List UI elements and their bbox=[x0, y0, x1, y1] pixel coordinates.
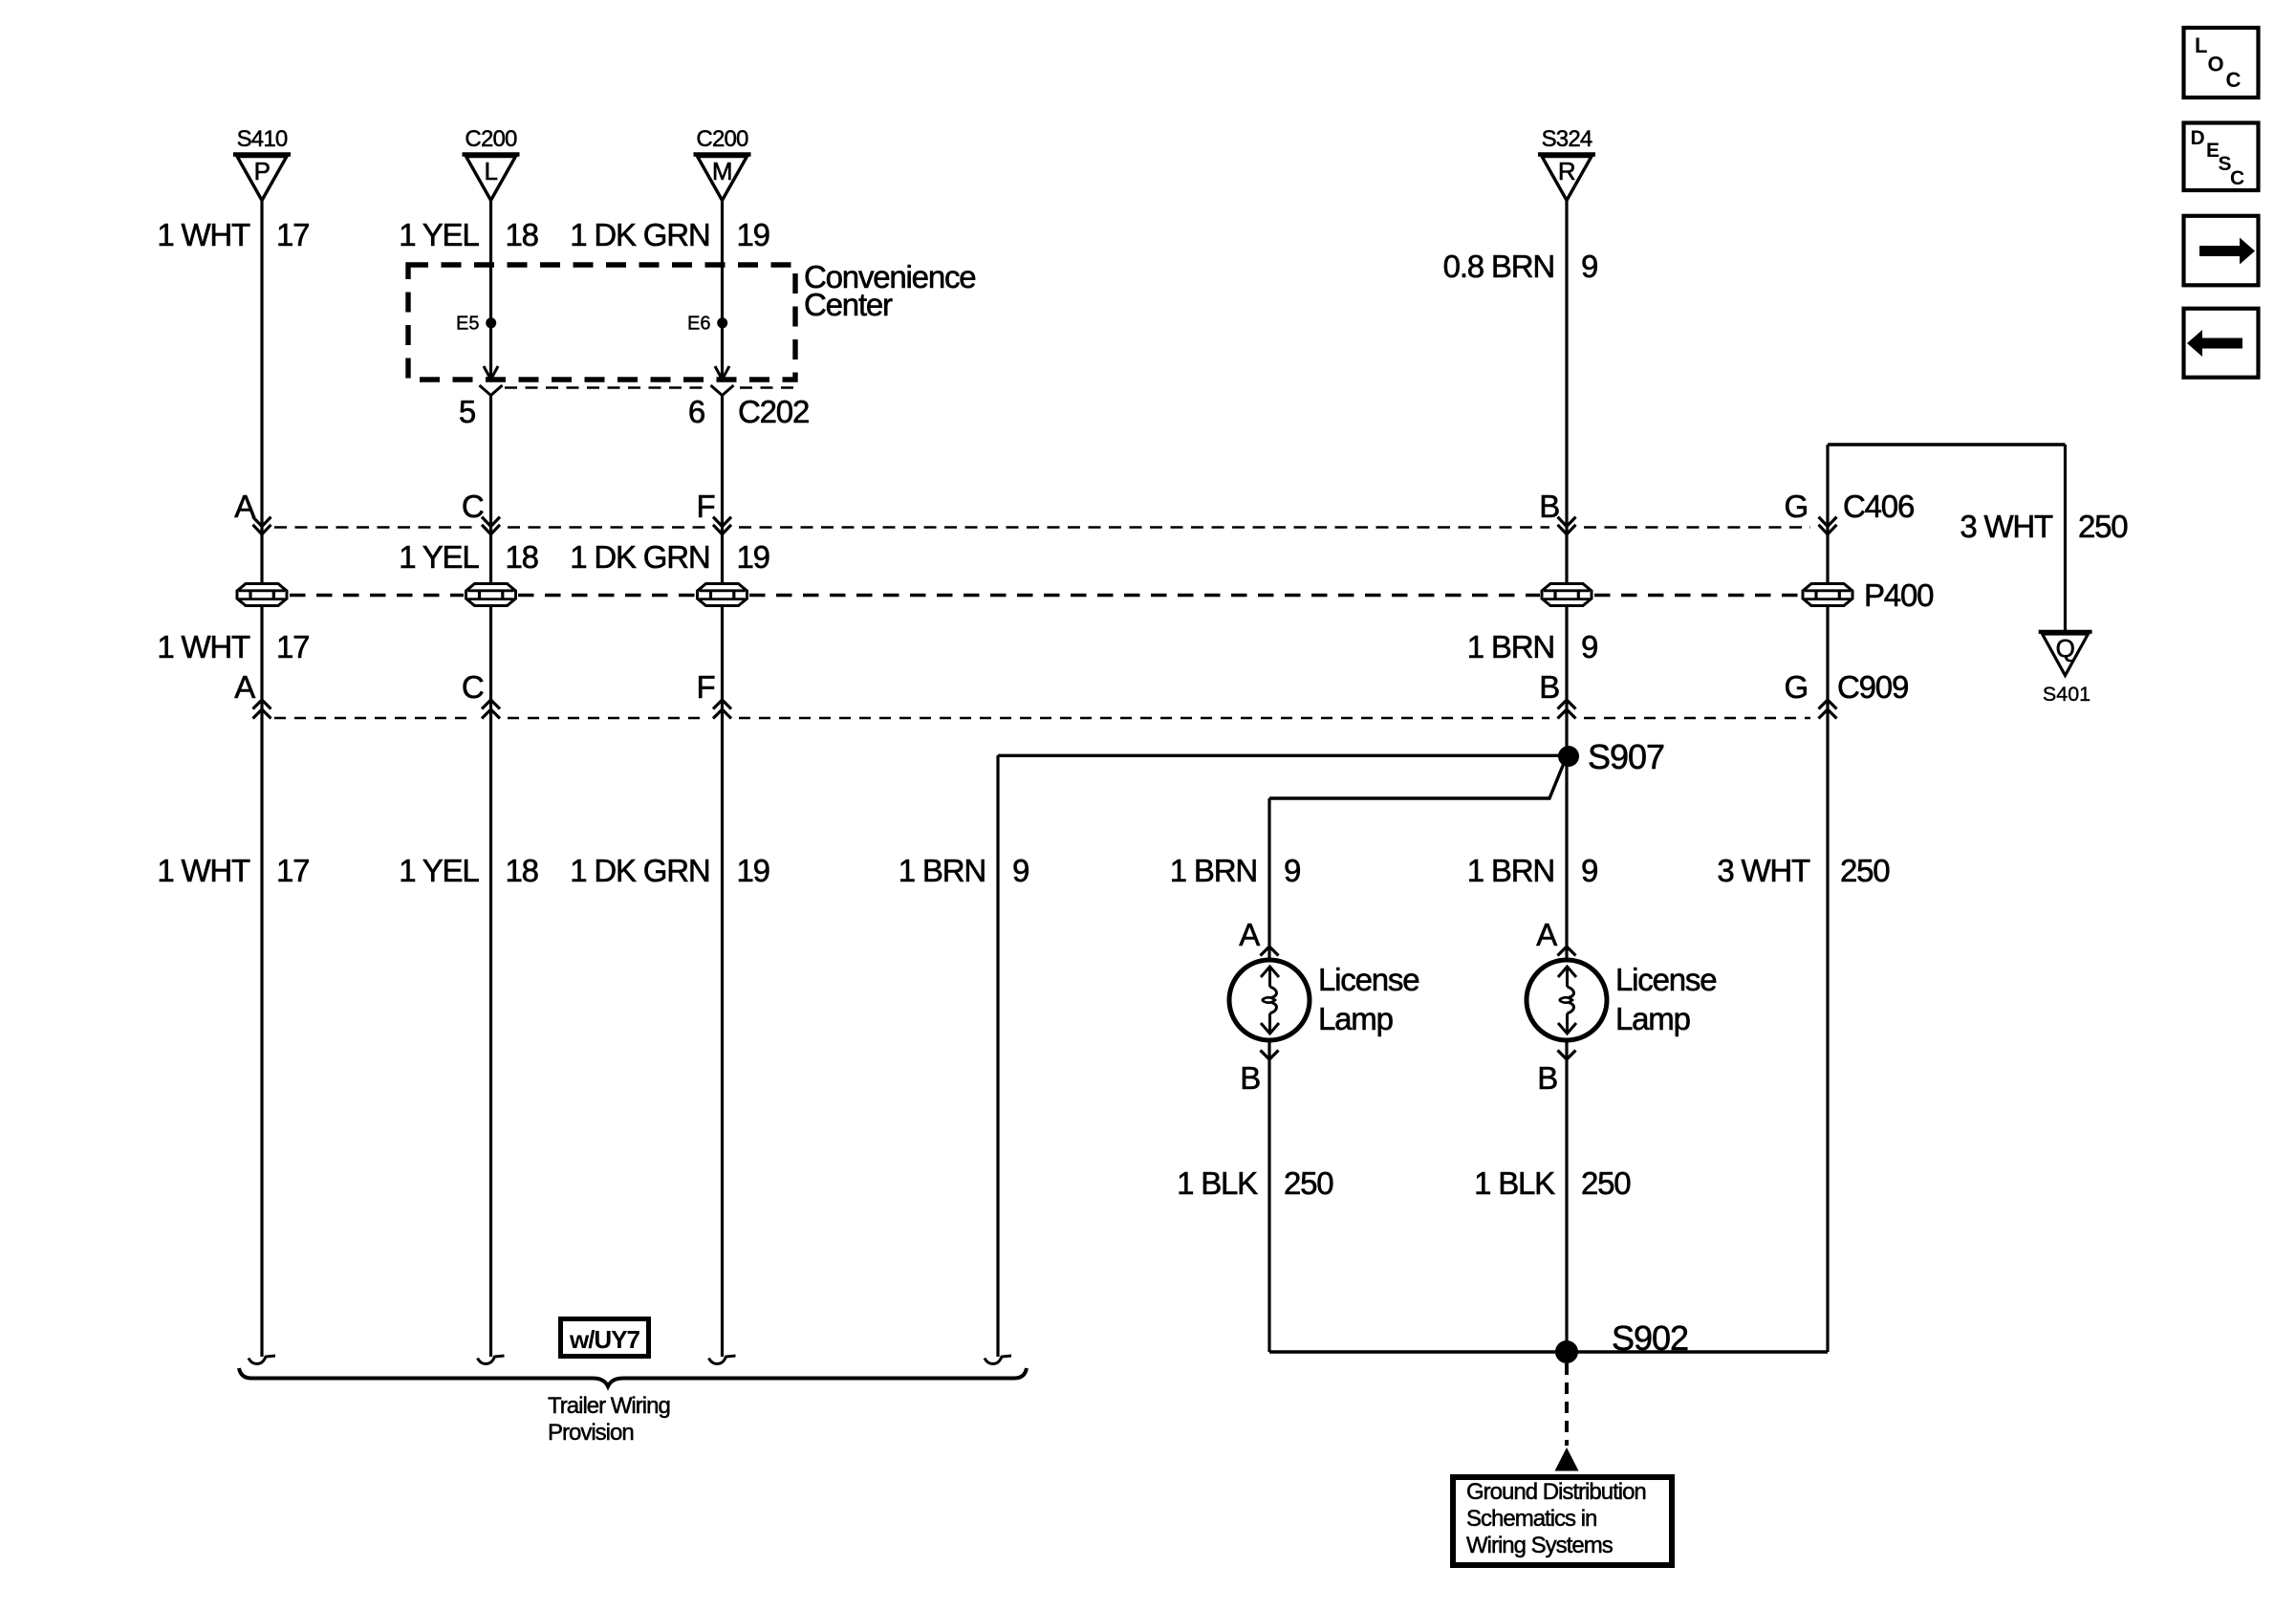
svg-text:C: C bbox=[462, 489, 484, 524]
svg-text:250: 250 bbox=[1284, 1165, 1333, 1201]
svg-text:C909: C909 bbox=[1837, 669, 1908, 705]
svg-text:1 BRN: 1 BRN bbox=[1467, 853, 1554, 888]
svg-text:S907: S907 bbox=[1588, 737, 1664, 776]
svg-text:O: O bbox=[2208, 53, 2224, 76]
svg-text:18: 18 bbox=[506, 217, 538, 252]
svg-text:9: 9 bbox=[1284, 853, 1300, 888]
svg-text:19: 19 bbox=[737, 853, 769, 888]
svg-text:L: L bbox=[2195, 33, 2207, 57]
svg-text:F: F bbox=[697, 489, 715, 524]
svg-text:C200: C200 bbox=[465, 126, 517, 152]
svg-text:1 DK GRN: 1 DK GRN bbox=[570, 539, 709, 575]
svg-text:B: B bbox=[1240, 1060, 1260, 1096]
svg-text:1 WHT: 1 WHT bbox=[157, 217, 250, 252]
svg-text:250: 250 bbox=[1840, 853, 1890, 888]
svg-text:17: 17 bbox=[276, 629, 309, 664]
svg-text:C: C bbox=[462, 669, 484, 705]
svg-text:250: 250 bbox=[2078, 509, 2128, 544]
svg-text:17: 17 bbox=[276, 853, 309, 888]
svg-text:Center: Center bbox=[804, 287, 893, 322]
svg-text:F: F bbox=[697, 669, 715, 705]
svg-text:1 BRN: 1 BRN bbox=[1467, 629, 1554, 664]
svg-text:A: A bbox=[1536, 917, 1557, 952]
svg-text:C: C bbox=[2226, 68, 2242, 92]
svg-text:19: 19 bbox=[737, 539, 769, 575]
svg-text:B: B bbox=[1539, 489, 1559, 524]
svg-text:5: 5 bbox=[459, 394, 475, 429]
svg-text:C200: C200 bbox=[696, 126, 748, 152]
svg-text:1 DK GRN: 1 DK GRN bbox=[570, 217, 709, 252]
svg-text:S410: S410 bbox=[237, 126, 288, 152]
svg-text:9: 9 bbox=[1581, 853, 1597, 888]
svg-text:M: M bbox=[712, 157, 732, 185]
svg-text:1 BRN: 1 BRN bbox=[899, 853, 986, 888]
svg-text:A: A bbox=[234, 669, 255, 705]
svg-text:1 DK GRN: 1 DK GRN bbox=[570, 853, 709, 888]
svg-text:E5: E5 bbox=[456, 314, 479, 335]
svg-text:Ground Distribution: Ground Distribution bbox=[1466, 1479, 1646, 1505]
svg-text:P: P bbox=[254, 157, 271, 185]
svg-text:C202: C202 bbox=[738, 394, 809, 429]
svg-text:B: B bbox=[1537, 1060, 1557, 1096]
svg-text:9: 9 bbox=[1581, 249, 1597, 284]
svg-text:P400: P400 bbox=[1864, 577, 1934, 613]
svg-text:1 WHT: 1 WHT bbox=[157, 629, 250, 664]
svg-text:G: G bbox=[1785, 669, 1808, 705]
svg-text:Schematics in: Schematics in bbox=[1466, 1506, 1596, 1532]
svg-text:Lamp: Lamp bbox=[1318, 1001, 1393, 1036]
svg-text:D: D bbox=[2191, 127, 2205, 149]
svg-text:6: 6 bbox=[688, 394, 704, 429]
svg-text:1 BRN: 1 BRN bbox=[1170, 853, 1257, 888]
svg-text:1 BLK: 1 BLK bbox=[1177, 1165, 1258, 1201]
svg-text:G: G bbox=[1785, 489, 1808, 524]
svg-text:C: C bbox=[2230, 167, 2244, 189]
svg-text:1 YEL: 1 YEL bbox=[399, 217, 479, 252]
svg-text:Trailer Wiring: Trailer Wiring bbox=[548, 1393, 670, 1419]
svg-text:9: 9 bbox=[1581, 629, 1597, 664]
svg-text:Q: Q bbox=[2056, 634, 2075, 663]
svg-text:A: A bbox=[234, 489, 255, 524]
svg-text:3 WHT: 3 WHT bbox=[1960, 509, 2053, 544]
svg-text:Provision: Provision bbox=[548, 1420, 634, 1446]
svg-text:w/UY7: w/UY7 bbox=[569, 1325, 640, 1354]
svg-text:250: 250 bbox=[1581, 1165, 1631, 1201]
svg-text:R: R bbox=[1558, 157, 1575, 185]
svg-text:A: A bbox=[1239, 917, 1260, 952]
svg-text:9: 9 bbox=[1012, 853, 1029, 888]
svg-text:1 YEL: 1 YEL bbox=[399, 853, 479, 888]
svg-text:19: 19 bbox=[737, 217, 769, 252]
svg-text:0.8 BRN: 0.8 BRN bbox=[1443, 249, 1554, 284]
svg-text:18: 18 bbox=[506, 853, 538, 888]
svg-text:B: B bbox=[1539, 669, 1559, 705]
svg-text:18: 18 bbox=[506, 539, 538, 575]
svg-text:Lamp: Lamp bbox=[1615, 1001, 1690, 1036]
svg-text:1 YEL: 1 YEL bbox=[399, 539, 479, 575]
svg-text:S324: S324 bbox=[1542, 126, 1592, 152]
svg-text:1 WHT: 1 WHT bbox=[157, 853, 250, 888]
svg-text:3 WHT: 3 WHT bbox=[1717, 853, 1810, 888]
svg-text:C406: C406 bbox=[1843, 489, 1914, 524]
svg-text:S401: S401 bbox=[2043, 683, 2090, 706]
svg-text:License: License bbox=[1318, 962, 1419, 997]
svg-text:S902: S902 bbox=[1612, 1318, 1688, 1358]
svg-text:17: 17 bbox=[276, 217, 309, 252]
svg-text:1 BLK: 1 BLK bbox=[1474, 1165, 1555, 1201]
svg-text:License: License bbox=[1615, 962, 1716, 997]
svg-text:Wiring Systems: Wiring Systems bbox=[1466, 1533, 1614, 1558]
svg-text:L: L bbox=[485, 157, 498, 185]
svg-text:E6: E6 bbox=[687, 314, 710, 335]
